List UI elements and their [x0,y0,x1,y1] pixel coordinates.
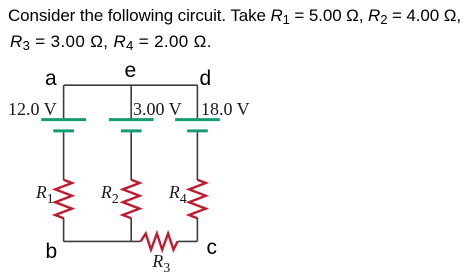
wire middle column upper (e to battery) [130,85,132,118]
battery V1 long plate [41,118,86,121]
resistor R3 value label [153,251,171,272]
wire right column upper (d to battery) [196,85,198,118]
wire middle column mid (battery to R2) [130,132,132,180]
wire top rail a-e-d [64,84,198,86]
battery V2 value 3.00 V [133,99,182,120]
node d [200,67,212,91]
node e [125,59,137,83]
problem statement line 1 [8,6,461,26]
wire right column lower (R4 to c) [196,218,198,241]
resistor R2 [123,180,140,218]
battery V3 value 18.0 V [201,99,250,120]
node c [207,236,218,260]
resistor R2 value label [101,182,119,203]
wire right column mid (battery to R4) [196,132,198,180]
wire bottom rail b to R3 [64,240,141,242]
battery V1 short plate [53,129,74,132]
node a [45,67,57,91]
wire left column upper (a to battery) [63,85,65,118]
resistor R3 [141,234,178,250]
battery V3 short plate [187,129,208,132]
wire middle column lower (R2 to bottom rail) [130,218,132,241]
node b [46,240,58,264]
wire R3 to c corner [178,240,198,242]
resistor R1 [55,180,72,218]
resistor R4 value label [169,182,187,203]
battery V3 long plate [175,118,220,121]
problem statement line 2 [10,32,212,52]
battery V2 long plate [109,118,154,121]
resistor R4 [189,180,206,218]
resistor R1 value label [36,182,54,203]
wire left column mid (battery to R1) [63,132,65,180]
wire left column lower (R1 to b) [63,218,65,241]
battery V2 short plate [121,129,142,132]
battery V1 value 12.0 V [8,99,57,120]
